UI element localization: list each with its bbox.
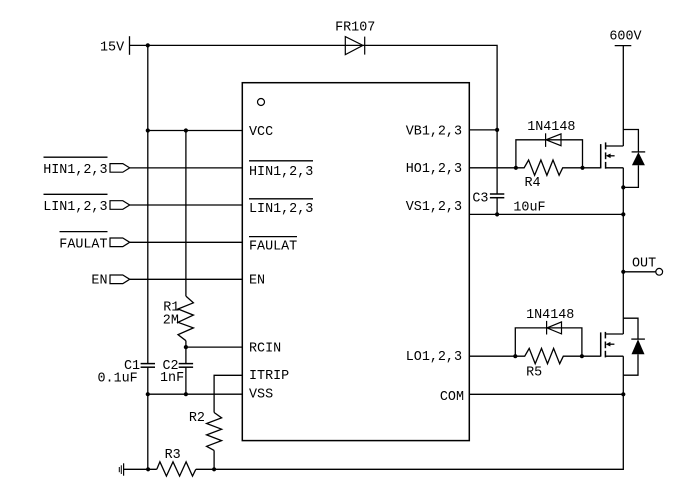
wire VS1,2,3 rail <box>469 212 625 216</box>
wire top rail 15V to VB corner <box>130 43 498 130</box>
svg-text:VS1,2,3: VS1,2,3 <box>406 200 462 215</box>
wire LIN1,2,3 to IC <box>130 204 243 206</box>
svg-text:10uF: 10uF <box>513 200 545 215</box>
node 600V supply <box>609 29 641 45</box>
IC pin label LIN1,2,3 <box>249 199 313 217</box>
wire ITRIP to IC <box>214 375 242 412</box>
svg-text:LIN1,2,3: LIN1,2,3 <box>43 200 107 215</box>
wire RCIN to IC <box>184 345 243 349</box>
wire vertical rail V1 from 15V <box>147 45 149 469</box>
op-amp U1 IC body <box>242 83 469 441</box>
svg-text:2M: 2M <box>163 313 179 328</box>
wire FAULAT to IC <box>130 241 243 243</box>
svg-text:R5: R5 <box>526 366 542 381</box>
node LIN1,2,3 input connector <box>43 194 129 215</box>
node 15V supply <box>100 36 130 55</box>
capacitor C1 0.1uF <box>98 359 156 387</box>
diode FR107 <box>335 21 375 55</box>
svg-text:EN: EN <box>249 274 265 289</box>
wire R4 to gate Q1 <box>583 167 601 169</box>
wire Q2 source down to COM node <box>622 356 624 394</box>
wire bottom ground rail <box>124 394 624 471</box>
diode body diode Q1 <box>623 130 645 188</box>
wire Q1 source down <box>621 168 625 334</box>
svg-text:R2: R2 <box>189 411 205 426</box>
wire 600V to Q1 drain <box>622 46 624 146</box>
wire R2 to bottom rail <box>213 450 215 469</box>
node EN input connector <box>91 274 129 289</box>
svg-text:HIN1,2,3: HIN1,2,3 <box>249 165 313 180</box>
wire HIN1,2,3 to IC <box>130 167 243 169</box>
wire VCC rail <box>146 128 243 132</box>
svg-text:1N4148: 1N4148 <box>526 308 574 323</box>
svg-text:600V: 600V <box>609 29 641 44</box>
svg-text:R4: R4 <box>525 176 541 191</box>
node OUT <box>621 256 662 275</box>
wire VB1,2,3 to bootstrap node <box>469 128 499 132</box>
svg-text:FAULAT: FAULAT <box>59 237 107 252</box>
capacitor C2 1nF <box>160 359 193 386</box>
wire R1 to RCIN node <box>185 341 187 364</box>
svg-text:EN: EN <box>91 274 107 289</box>
svg-text:0.1uF: 0.1uF <box>98 372 138 387</box>
svg-text:HO1,2,3: HO1,2,3 <box>406 162 462 177</box>
IC pin label FAULAT <box>249 237 297 255</box>
wire HO1,2,3 to R4 <box>469 167 516 169</box>
svg-text:VSS: VSS <box>249 388 273 403</box>
resistor R2 <box>189 411 222 451</box>
wire EN to IC <box>130 278 243 280</box>
resistor R4 <box>514 160 585 191</box>
svg-text:FR107: FR107 <box>335 21 375 36</box>
wire VSS rail <box>146 392 243 396</box>
svg-text:ITRIP: ITRIP <box>249 369 289 384</box>
ground <box>119 463 123 475</box>
wire vertical rail V2 VCC to R1 <box>185 131 187 297</box>
svg-text:OUT: OUT <box>632 256 656 271</box>
wire LO1,2,3 to R5 <box>469 355 515 357</box>
svg-text:LIN1,2,3: LIN1,2,3 <box>249 202 313 217</box>
svg-text:RCIN: RCIN <box>249 341 281 356</box>
IC pin label HIN1,2,3 <box>249 161 313 180</box>
resistor R3 <box>157 448 196 477</box>
wire R5 to gate Q2 <box>582 355 601 357</box>
diode body diode Q2 <box>623 318 645 375</box>
svg-text:FAULAT: FAULAT <box>249 239 297 254</box>
svg-text:15V: 15V <box>100 41 124 56</box>
wire C2 to VSS rail <box>185 367 187 394</box>
resistor R5 <box>513 348 584 380</box>
svg-text:R3: R3 <box>165 448 181 463</box>
svg-text:COM: COM <box>440 390 464 405</box>
svg-text:1nF: 1nF <box>160 371 184 386</box>
svg-text:VB1,2,3: VB1,2,3 <box>406 125 462 140</box>
capacitor C3 10uF <box>472 130 545 215</box>
diode 1N4148 upper <box>516 120 583 168</box>
node FAULAT input connector <box>59 232 129 253</box>
transistor Q1 upper MOSFET <box>601 142 624 168</box>
transistor Q2 lower MOSFET <box>601 332 624 358</box>
diode 1N4148 lower <box>515 308 582 356</box>
svg-text:C3: C3 <box>472 192 488 207</box>
svg-text:LO1,2,3: LO1,2,3 <box>406 350 462 365</box>
resistor R1 2M <box>163 296 194 341</box>
svg-text:1N4148: 1N4148 <box>527 120 575 135</box>
svg-text:VCC: VCC <box>249 125 273 140</box>
node HIN1,2,3 input connector <box>43 157 129 178</box>
svg-text:HIN1,2,3: HIN1,2,3 <box>43 163 107 178</box>
wire COM to IC <box>469 392 625 396</box>
